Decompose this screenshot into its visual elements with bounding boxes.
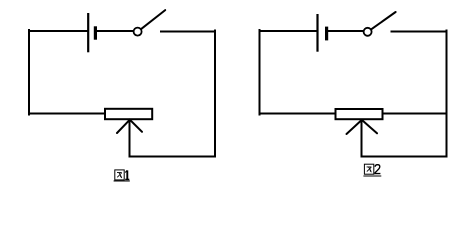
wire: figure2 left vertical bbox=[259, 30, 261, 115]
wire: figure1 right vertical bbox=[214, 31, 216, 157]
wire: figure1 left vertical bbox=[28, 30, 30, 115]
wire: figure1 top-left segment from battery positive to left corner bbox=[29, 30, 87, 32]
battery B1 (cell) short negative plate bbox=[94, 26, 97, 39]
wire: figure2 right vertical bbox=[446, 31, 448, 157]
rheostat R2 resistive body (box) bbox=[336, 109, 383, 119]
label: 图 glyph of caption 图1 (hand-drawn) bbox=[115, 170, 124, 180]
wire: figure1 bottom-left horizontal to rheostat left terminal bbox=[29, 113, 105, 115]
wire: figure2 top-left segment from battery positive to left corner bbox=[260, 30, 318, 32]
wire: figure2 bottom horizontal from wiper stem to right vertical bbox=[362, 156, 447, 158]
label: digit 1 of caption 图1 (drawn) bbox=[125, 170, 129, 179]
wire: figure1 top-right segment from switch contact to right corner bbox=[161, 31, 215, 33]
rheostat R1 wiper arrow head bbox=[117, 120, 142, 133]
switch S2 open blade (diagonal arm) bbox=[371, 12, 395, 29]
rheostat R1 wiper stem (vertical lead) bbox=[129, 120, 131, 157]
rheostat R2 wiper stem (vertical lead) bbox=[361, 120, 363, 157]
rheostat R1 resistive body (box) bbox=[105, 109, 152, 119]
switch S2 pivot circle bbox=[364, 28, 372, 36]
label: 图 glyph of caption 图2 (hand-drawn) bbox=[364, 164, 373, 174]
label: digit 2 of caption 图2 (drawn) bbox=[375, 165, 381, 174]
switch S1 pivot circle bbox=[134, 28, 142, 36]
label: underline of caption 图2 bbox=[363, 175, 381, 177]
rheostat R2 wiper arrow head bbox=[347, 120, 378, 134]
wire: figure2 bottom-left horizontal to rheostat left terminal bbox=[260, 113, 336, 115]
wire: figure2 battery negative to switch pivot bbox=[328, 30, 364, 32]
wire: figure2 top-right segment from switch contact to right corner bbox=[392, 31, 447, 33]
wire: figure2 middle horizontal from rheostat right terminal to right vertical bbox=[383, 113, 447, 115]
switch S1 open blade (diagonal arm) bbox=[141, 10, 165, 29]
battery B2 (cell) long positive plate bbox=[316, 14, 318, 52]
wire: figure1 bottom horizontal from wiper stem to right corner bbox=[130, 156, 216, 158]
wire: figure1 battery negative to switch pivot bbox=[97, 30, 133, 32]
label: underline of caption 图1 bbox=[114, 180, 130, 182]
battery B1 (cell) long positive plate bbox=[87, 13, 89, 52]
battery B2 (cell) short negative plate bbox=[325, 27, 328, 41]
